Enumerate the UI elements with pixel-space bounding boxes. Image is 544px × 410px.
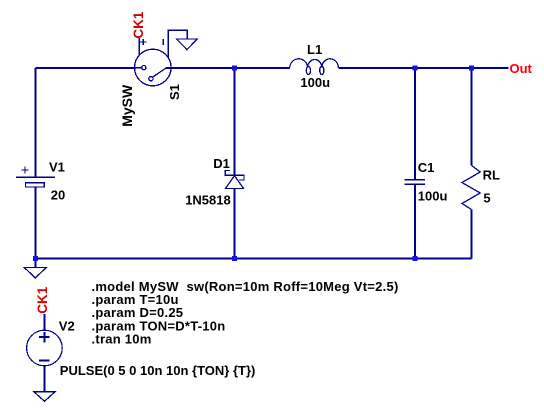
- ground bottom-left: [24, 268, 46, 278]
- svg-text:V2: V2: [59, 319, 75, 334]
- svg-text:S1: S1: [167, 84, 182, 100]
- svg-text:PULSE(0 5 0 10n 10n {TON} {T}): PULSE(0 5 0 10n 10n {TON} {T}): [60, 363, 256, 378]
- svg-text:1N5818: 1N5818: [185, 193, 231, 208]
- wire top rail left (V1 top to switch): [35, 67, 134, 69]
- svg-text:V1: V1: [49, 160, 65, 175]
- svg-text:5: 5: [483, 190, 490, 205]
- wire C1 bottom branch: [414, 184, 416, 258]
- svg-text:RL: RL: [483, 168, 500, 183]
- svg-text:100u: 100u: [418, 189, 448, 204]
- wire inductor to Out: [338, 67, 508, 69]
- svg-text:L1: L1: [307, 42, 322, 57]
- wire V2 top (CK1 pin): [43, 314, 45, 330]
- wire V1 bottom to bottom rail: [34, 187, 36, 258]
- switch control pin + wire: [138, 38, 140, 56]
- svg-text:20: 20: [51, 188, 65, 203]
- wire V2 bottom to ground: [43, 366, 45, 392]
- svg-text:Out: Out: [510, 61, 533, 76]
- svg-text:C1: C1: [418, 160, 435, 175]
- wire RL top branch: [471, 68, 473, 166]
- diode D1 (schottky): [225, 171, 244, 189]
- switch minus label: [162, 39, 164, 45]
- junction node at C1 bottom: [412, 256, 417, 261]
- wire D1 bottom branch: [234, 189, 236, 259]
- inductor L1: [290, 59, 339, 75]
- wire D1 top branch: [234, 68, 236, 175]
- svg-text:CK1: CK1: [35, 286, 50, 313]
- wire ground stub bottom-left: [34, 258, 36, 267]
- svg-text:MySW: MySW: [119, 84, 135, 127]
- ground near switch: [177, 39, 198, 50]
- switch plus label: [140, 39, 146, 45]
- junction node at D1 bottom: [232, 256, 237, 261]
- svg-text:D1: D1: [213, 156, 230, 171]
- capacitor C1: [404, 180, 425, 185]
- wire C1 top branch: [414, 68, 416, 180]
- wire switch right to inductor: [166, 67, 290, 69]
- wire bottom rail: [35, 257, 471, 259]
- switch control pin - wire: [168, 30, 187, 57]
- voltage source V2: [27, 330, 63, 366]
- junction node at C1 top: [412, 66, 417, 71]
- junction node at V1 bottom: [33, 256, 38, 261]
- svg-text:CK1: CK1: [131, 11, 146, 38]
- junction node at RL top: [469, 66, 474, 71]
- voltage source V1 (battery): [16, 167, 55, 187]
- svg-text:.tran 10m: .tran 10m: [92, 331, 152, 346]
- resistor RL: [462, 166, 480, 210]
- switch S1 body: [135, 30, 188, 85]
- svg-text:100u: 100u: [300, 75, 330, 90]
- wire RL bottom branch: [471, 210, 473, 259]
- junction node at D1 top: [232, 66, 237, 71]
- wire left rail (V1 branch): [34, 68, 36, 177]
- ground below V2: [34, 392, 55, 402]
